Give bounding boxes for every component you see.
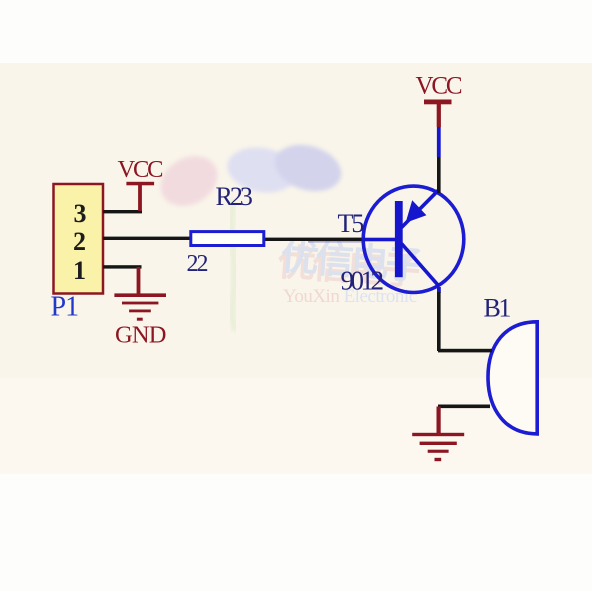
svg-text:B1: B1 <box>484 294 511 323</box>
svg-text:9012: 9012 <box>341 266 384 296</box>
svg-text:3: 3 <box>74 199 87 228</box>
svg-text:T5: T5 <box>338 209 364 238</box>
svg-text:VCC: VCC <box>118 156 163 183</box>
svg-text:P1: P1 <box>51 292 79 323</box>
svg-text:1: 1 <box>73 256 86 285</box>
svg-text:GND: GND <box>115 322 166 349</box>
svg-text:22: 22 <box>187 251 208 277</box>
svg-text:VCC: VCC <box>416 73 462 100</box>
svg-text:2: 2 <box>73 227 86 256</box>
svg-text:R23: R23 <box>216 182 252 211</box>
